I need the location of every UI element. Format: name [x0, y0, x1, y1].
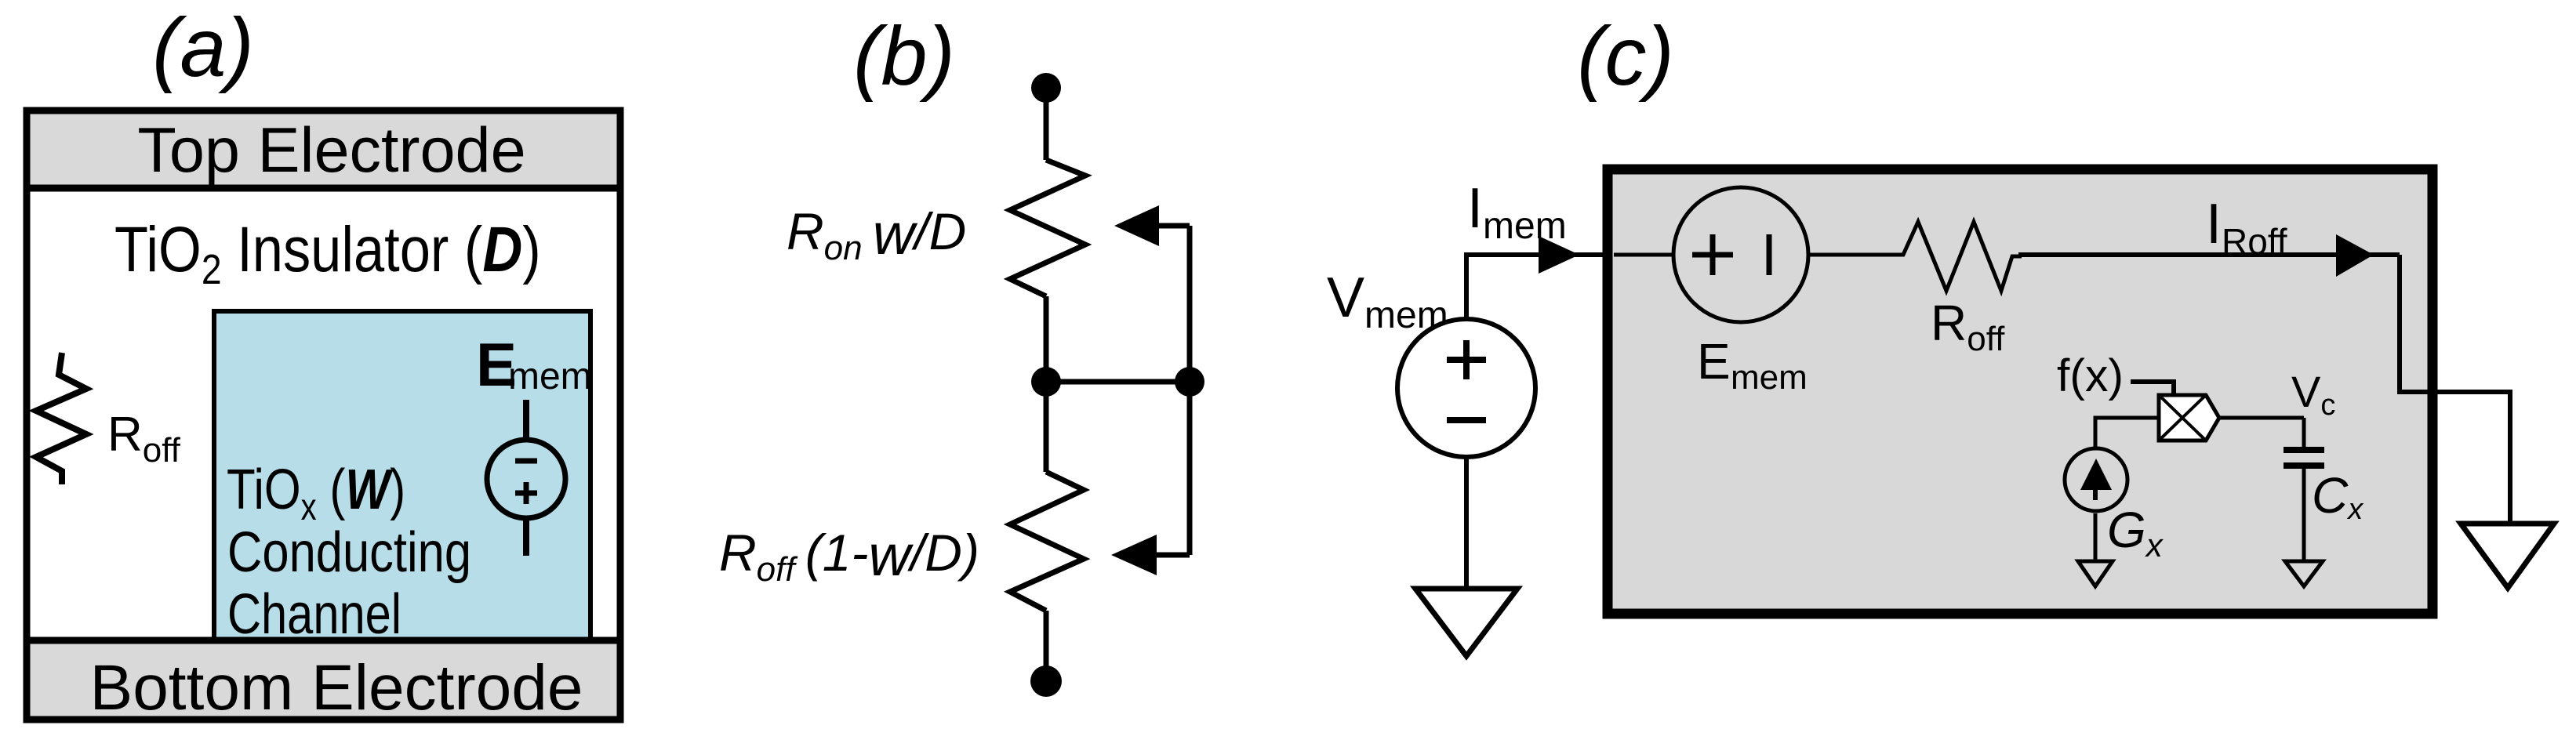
- wire from Roff to corner: [2018, 252, 2400, 257]
- wire arrow into Roff: [1111, 535, 1190, 575]
- label TiOx (W): [227, 459, 405, 528]
- current source Gx: [2065, 448, 2127, 511]
- device outer box: [27, 111, 620, 720]
- wire: [1046, 379, 1190, 385]
- svg-text:E: E: [1697, 333, 1731, 390]
- svg-text:Bottom Electrode: Bottom Electrode: [90, 652, 583, 723]
- wire: [1044, 88, 1049, 160]
- ground below Cx: [2285, 561, 2323, 586]
- arrow Imem: [1539, 236, 1579, 274]
- voltage source Vmem: [1397, 319, 1535, 457]
- wire down inside box: [2400, 255, 2510, 524]
- wire: [1044, 382, 1049, 472]
- wire: [1044, 611, 1049, 681]
- subcircuit gray box: [1608, 169, 2432, 614]
- resistor Ron w/D: [1010, 160, 1085, 296]
- svg-text:Channel: Channel: [227, 583, 401, 647]
- svg-text:TiOx (W): TiOx (W): [227, 459, 405, 528]
- svg-text:Ron w/D: Ron w/D: [787, 201, 966, 267]
- label Conducting: [227, 520, 471, 584]
- wire from Vmem to box: [1466, 255, 1609, 319]
- wire from f(x) to multiplier: [2131, 382, 2174, 397]
- voltage source Emem (panel a): [487, 400, 565, 556]
- top electrode bar: [27, 111, 620, 188]
- wire: [1044, 296, 1049, 382]
- node middle right: [1175, 367, 1204, 397]
- svg-text:TiO2 Insulator (D): TiO2 Insulator (D): [114, 214, 541, 293]
- wire multiplier to Vc node: [2219, 416, 2304, 420]
- label TiO2 Insulator (D): [114, 214, 541, 293]
- node middle left: [1031, 367, 1061, 397]
- svg-text:(a): (a): [152, 2, 254, 94]
- svg-text:f(x): f(x): [2057, 350, 2124, 401]
- svg-text:(b): (b): [853, 10, 955, 103]
- ground below Vmem: [1415, 589, 1517, 656]
- label Channel: [227, 583, 401, 647]
- bottom terminal node: [1030, 665, 1062, 697]
- top terminal node: [1031, 73, 1061, 103]
- wire from Emem to Roff: [1808, 253, 1898, 257]
- voltage source Emem (panel c): [1614, 187, 1808, 322]
- svg-text:mem: mem: [508, 356, 592, 397]
- wire arrow into Ron: [1114, 205, 1190, 382]
- arrow IRoff: [2336, 234, 2374, 277]
- multiplier: [2159, 395, 2219, 441]
- wire multiplier to Gx: [2095, 418, 2159, 451]
- TiOx conducting channel blue box: [214, 311, 590, 641]
- bottom electrode bar: [27, 640, 620, 720]
- svg-text:(c): (c): [1577, 10, 1674, 103]
- svg-text:Top Electrode: Top Electrode: [137, 115, 525, 186]
- svg-text:Conducting: Conducting: [227, 520, 471, 584]
- wire: [1187, 382, 1193, 555]
- ground right: [2461, 524, 2554, 588]
- capacitor Cx: [2284, 418, 2324, 561]
- resistor squiggle Roff (panel a): [36, 353, 86, 484]
- resistor Roff (panel c): [1893, 222, 2022, 291]
- svg-text:mem: mem: [1731, 358, 1808, 397]
- ground below Gx: [2078, 561, 2113, 586]
- wire below Vmem: [1464, 457, 1469, 589]
- wire below Gx: [2094, 513, 2098, 561]
- resistor Roff (1-w/D): [1010, 472, 1084, 611]
